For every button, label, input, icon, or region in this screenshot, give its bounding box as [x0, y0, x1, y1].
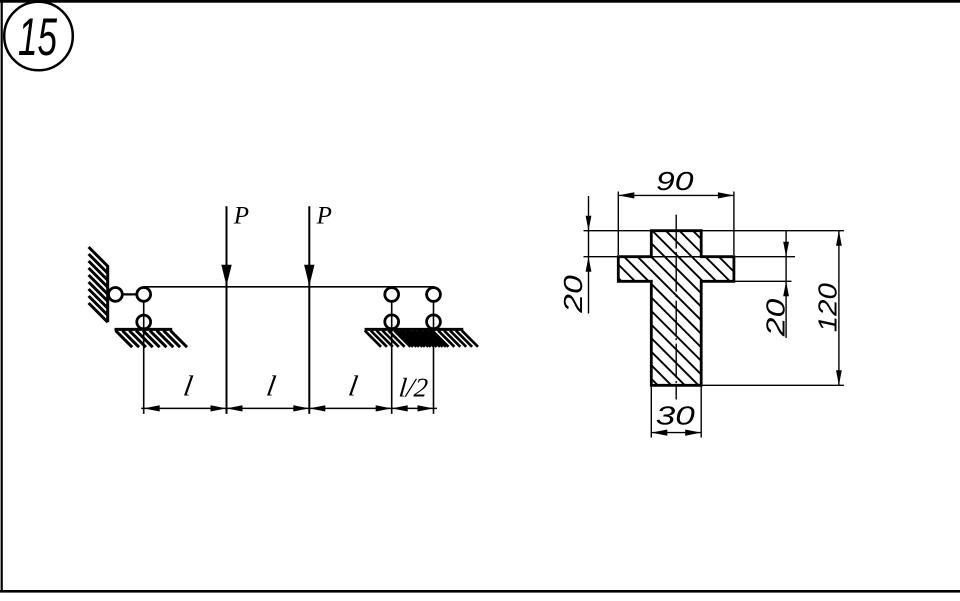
- dimension arrows l/2 segment: [392, 405, 408, 411]
- svg-text:P: P: [233, 202, 249, 229]
- dimension arrows l segment 1: [144, 405, 160, 411]
- lower roller circle of left support: [137, 315, 151, 329]
- wall hatching (left fixed support): [89, 247, 108, 322]
- extension line from stem bottom-right corner down (30 dim): [700, 385, 702, 437]
- support A vertical line / extension line: [391, 287, 393, 414]
- sheet bottom border line: [0, 590, 960, 593]
- extension line from flange top to the right (right 20 dim): [734, 256, 795, 258]
- extension line from stem bottom-left corner down (30 dim): [650, 385, 652, 437]
- left 20 dimension line: [588, 196, 590, 314]
- force P2 arrowhead: [304, 265, 314, 286]
- force P1 arrowhead: [221, 265, 231, 286]
- svg-text:20: 20: [558, 275, 588, 314]
- support B vertical line / extension line: [433, 287, 435, 414]
- ground line under right supports: [365, 328, 464, 331]
- extension line from stem top to the left (20 dim): [584, 230, 652, 232]
- support B lower roller circle: [427, 315, 441, 329]
- 30 dimension arrows: [651, 430, 667, 436]
- svg-text:l/2: l/2: [398, 373, 430, 403]
- sheet top border line: [0, 0, 960, 3]
- left 20 dimension arrows: [586, 216, 592, 231]
- support A upper pin circle: [385, 288, 399, 302]
- extension line below left support (to dimension line): [143, 294, 145, 414]
- svg-text:90: 90: [656, 166, 694, 196]
- 120 dimension line: [838, 231, 840, 386]
- svg-text:l: l: [346, 371, 360, 403]
- 120 dimension arrows: [836, 231, 842, 246]
- svg-text:30: 30: [656, 401, 696, 431]
- cross-section vertical centerline (dash-dot): [675, 215, 677, 400]
- ground hatching under left support: [116, 331, 187, 348]
- dimension arrows l segment 2: [227, 405, 243, 411]
- cross-section outline: [618, 231, 734, 386]
- 30 dimension line: [651, 432, 701, 434]
- beam line: [144, 286, 435, 288]
- svg-text:15: 15: [18, 8, 57, 67]
- extension line left for 90 dim: [617, 192, 619, 256]
- cross-section shape fill: [618, 231, 734, 386]
- 90 dimension line: [618, 194, 734, 196]
- wall line (left support): [106, 265, 109, 322]
- force P1 line (continues as extension line to dimension line): [226, 206, 228, 414]
- flange top line crossing the stem (thin): [651, 256, 701, 258]
- wall pin circle: [109, 288, 123, 302]
- svg-text:l: l: [181, 371, 195, 403]
- extension line from flange bottom to the right (right 20 dim): [734, 280, 792, 282]
- force P2 line (continues as extension line to dimension line): [308, 206, 310, 414]
- 90 dimension arrows: [618, 192, 634, 198]
- support A lower roller circle: [385, 315, 399, 329]
- sheet left border line: [1, 0, 3, 592]
- right 20 dimension line: [785, 231, 787, 338]
- ground line under left support: [115, 328, 173, 331]
- svg-text:P: P: [316, 202, 332, 229]
- problem number circle: [4, 2, 73, 71]
- ground hatching band under support A: [365, 331, 446, 347]
- extension line from stem bottom to the right (120 dim): [701, 384, 844, 386]
- right 20 dimension arrows: [783, 242, 789, 257]
- svg-text:120: 120: [812, 283, 842, 333]
- link bar between wall pin and beam pin: [115, 293, 143, 295]
- extension line right for 90 dim: [733, 192, 735, 256]
- ground hatching band under support B: [397, 331, 478, 347]
- svg-text:20: 20: [760, 298, 790, 337]
- dimension arrows l segment 3: [309, 405, 325, 411]
- beam dimension line: [141, 407, 437, 409]
- beam pin circle (left support): [137, 288, 151, 302]
- extension line from flange top to the left (20 dim): [584, 256, 619, 258]
- svg-text:l: l: [264, 371, 278, 403]
- support B upper pin circle: [427, 288, 441, 302]
- extension line from stem top to the right (120 dim): [701, 230, 844, 232]
